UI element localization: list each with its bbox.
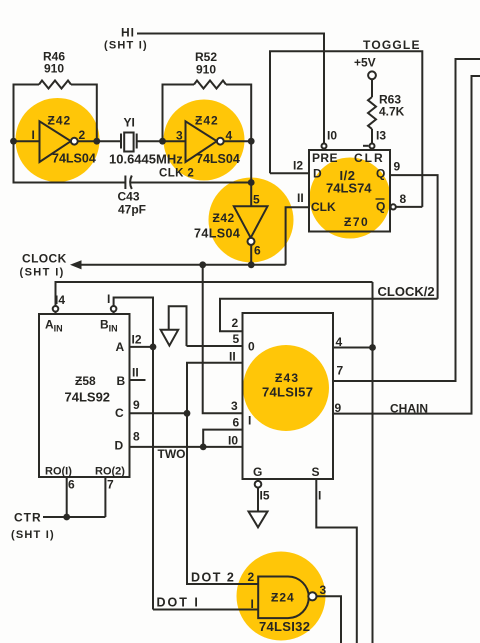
- svg-text:D: D: [313, 167, 322, 181]
- inverter Z42b triangle: [186, 121, 217, 162]
- +5V terminal circle: [368, 71, 376, 79]
- Z58 pin 1 bubble: [111, 306, 117, 312]
- svg-text:9: 9: [133, 398, 140, 412]
- wire C output pin 9 of Z58: [130, 412, 188, 414]
- resistor R52 zigzag: [194, 81, 226, 89]
- svg-text:Ƶ58: Ƶ58: [75, 374, 96, 388]
- svg-text:I0: I0: [228, 434, 238, 448]
- NAND Z24 output bubble: [308, 592, 316, 600]
- junction CTR node: [63, 514, 70, 521]
- wire DOT 1 into Z24 pin 1: [153, 609, 258, 611]
- svg-text:YI: YI: [124, 116, 135, 130]
- svg-text:Ƶ70: Ƶ70: [344, 215, 369, 229]
- wire HI net horizontal and drop to PRE pin 10: [137, 34, 324, 151]
- Z70 CLR pin 13 bubble: [370, 144, 375, 149]
- svg-text:2: 2: [79, 128, 86, 142]
- svg-text:3: 3: [320, 583, 327, 597]
- off-page hollow arrow under Z43 G pin: [249, 512, 268, 528]
- wire Z43 pin 6 stub from D output node: [203, 430, 242, 447]
- svg-text:Q: Q: [376, 167, 385, 181]
- wire CLOCK/2 rail to Z43 pin 2: [220, 299, 438, 332]
- svg-text:2: 2: [248, 570, 255, 584]
- Z70 PRE pin 10 bubble: [322, 144, 327, 149]
- junction inverter Z42a input node: [10, 138, 17, 145]
- wire input of inverter Z42a: [14, 140, 40, 142]
- wire Z43 pin 4 output: [333, 347, 373, 349]
- resistor R46 zigzag: [39, 81, 71, 89]
- svg-text:I0: I0: [327, 129, 337, 143]
- IC box Z43 74LS157 mux: [243, 313, 334, 479]
- svg-text:4.7K: 4.7K: [379, 105, 405, 119]
- svg-text:TWO: TWO: [158, 447, 186, 461]
- svg-text:I: I: [32, 128, 35, 142]
- svg-text:74LSI57: 74LSI57: [262, 385, 313, 400]
- svg-text:I: I: [318, 489, 321, 503]
- highlight circle over flip-flop Z70: [310, 158, 391, 239]
- svg-text:Ƶ42: Ƶ42: [48, 114, 72, 128]
- wire CLOCK rail: [80, 264, 286, 266]
- wire Qbar pin 8 of Z70: [393, 206, 422, 208]
- svg-text:CLK: CLK: [311, 200, 336, 214]
- svg-text:B: B: [117, 374, 126, 388]
- svg-text:CLK 2: CLK 2: [159, 168, 194, 180]
- svg-text:47pF: 47pF: [118, 203, 146, 217]
- svg-text:I2: I2: [132, 333, 142, 347]
- svg-text:PRE: PRE: [312, 151, 338, 165]
- svg-text:C: C: [115, 406, 124, 420]
- svg-text:II: II: [297, 191, 304, 205]
- junction inverter Z42b output node: [248, 138, 255, 145]
- svg-text:74LS04: 74LS04: [52, 152, 96, 166]
- wire CLK pin 11 of Z70 to CLOCK rail: [286, 207, 309, 265]
- wire output of inverter Z42a to crystal: [74, 140, 120, 142]
- wire RO(2) pin 7 of Z58: [104, 477, 106, 517]
- highlight circle over inverter Z42c: [209, 178, 294, 263]
- svg-text:RO(2): RO(2): [95, 466, 125, 478]
- wire C43 right segment to inverter Z42c column: [131, 182, 251, 184]
- svg-text:6: 6: [254, 244, 261, 258]
- svg-text:910: 910: [44, 62, 64, 76]
- svg-text:Ƶ42: Ƶ42: [213, 211, 235, 225]
- wire Z43 pin 5 stub: [187, 345, 243, 347]
- svg-text:910: 910: [196, 63, 216, 77]
- wire RO(1) pin 6 of Z58: [66, 477, 68, 517]
- junction C output node of Z58: [184, 410, 191, 417]
- wire output of inverter Z42b: [220, 140, 251, 142]
- svg-text:(SHT I): (SHT I): [11, 529, 55, 541]
- wire DOT 2 column down to Z24 pin 2: [187, 413, 258, 584]
- svg-text:Ƶ43: Ƶ43: [275, 371, 299, 385]
- inverter Z42b output bubble: [217, 138, 224, 145]
- svg-text:CLR: CLR: [354, 151, 385, 165]
- highlight circle over mux Z43: [243, 345, 329, 431]
- wire CHAIN net Z43 pin 9 to right edge: [333, 76, 480, 414]
- capacitor C43 left plate: [124, 176, 126, 190]
- svg-text:4: 4: [226, 129, 233, 143]
- svg-text:4: 4: [336, 335, 343, 349]
- wire Z58 pin 1 stub into box: [113, 306, 115, 314]
- svg-text:AIN: AIN: [45, 318, 63, 334]
- wire D pin 12 of Z70: [270, 172, 309, 174]
- wire R63 to CLR pin 13: [371, 129, 373, 150]
- svg-text:8: 8: [400, 192, 407, 206]
- svg-text:DOT I: DOT I: [157, 596, 200, 610]
- highlight circle over inverter Z42b: [164, 100, 245, 181]
- wire BIN link from pin 1 bubble to A output column: [114, 298, 153, 610]
- inverter Z42c triangle pointing down: [234, 206, 268, 238]
- NAND Z24 body: [258, 577, 309, 619]
- svg-text:II: II: [132, 366, 139, 380]
- overbar of Qbar label: [376, 198, 385, 200]
- svg-text:G: G: [253, 465, 262, 479]
- wire Z43 G pin 15 down to arrow: [257, 479, 259, 512]
- svg-text:10.6445MHz: 10.6445MHz: [109, 152, 183, 167]
- svg-text:3: 3: [176, 129, 183, 143]
- junction CLOCK rail at Z43 pin3 column: [199, 261, 206, 268]
- wire Z43 S pin 1 down and right to bottom edge: [316, 479, 357, 643]
- svg-text:CLOCK/2: CLOCK/2: [378, 284, 435, 299]
- crystal Y1 plates: [121, 134, 137, 149]
- svg-text:C43: C43: [118, 190, 140, 204]
- svg-text:6: 6: [68, 478, 75, 492]
- wire Z58 pin 14 stub into box: [55, 306, 57, 314]
- inverter Z42a output bubble: [71, 138, 78, 145]
- wire A output pin 12 of Z58: [130, 346, 154, 348]
- svg-text:74LS74: 74LS74: [326, 181, 372, 196]
- svg-text:DOT 2: DOT 2: [191, 571, 235, 585]
- wire inverter Z42b output down through C43 node to Z42c input: [250, 141, 252, 206]
- inverter Z42c output bubble: [248, 238, 255, 245]
- svg-text:3: 3: [231, 399, 238, 413]
- svg-text:BIN: BIN: [100, 318, 118, 334]
- svg-text:+5V: +5V: [354, 56, 376, 70]
- svg-text:9: 9: [335, 401, 342, 415]
- wire Z43 pin 7 output to right edge: [333, 59, 480, 381]
- Z70 Qbar pin 8 bubble: [391, 204, 396, 209]
- svg-text:I2: I2: [293, 159, 303, 173]
- IC box Z70 74LS74 flip-flop: [309, 150, 390, 232]
- svg-text:Ƶ24: Ƶ24: [271, 591, 295, 605]
- wire feedback loop 1 left leg: [14, 85, 40, 142]
- svg-text:I: I: [107, 292, 110, 306]
- svg-text:8: 8: [133, 430, 140, 444]
- IC box Z58 74LS92 counter: [39, 314, 130, 477]
- wire off-page arrow link to Z43 pin 5: [169, 306, 187, 346]
- highlight circle over NAND Z24: [237, 552, 326, 641]
- wire Z24 output pin 3 down to bottom edge: [316, 596, 341, 643]
- svg-text:9: 9: [394, 160, 401, 174]
- junction A output node of Z58: [150, 344, 157, 351]
- svg-text:CTR: CTR: [14, 511, 42, 525]
- svg-text:A: A: [116, 340, 125, 354]
- svg-text:74LS04: 74LS04: [196, 152, 240, 166]
- Z58 pin 14 bubble: [53, 306, 59, 312]
- wire Q pin 9 of Z70 down to CLOCK/2 rail: [389, 175, 438, 299]
- wire Z43 pin 4 output column down to bottom edge: [372, 282, 374, 643]
- svg-text:Q: Q: [376, 200, 385, 214]
- junction D output node of Z58: [200, 444, 207, 451]
- Z43 G pin 15 bubble: [255, 481, 262, 488]
- wire +5V stub above R63: [371, 79, 373, 97]
- wire feedback loop 2 right leg: [226, 85, 251, 142]
- wire D output pin 8 of Z58 to Z43 pin 10: [130, 446, 243, 448]
- wire feedback loop 1 right leg: [71, 85, 97, 142]
- highlight circle over inverter Z42a: [16, 98, 100, 182]
- svg-text:TOGGLE: TOGGLE: [363, 38, 421, 52]
- wire CLOCK rail down to Z43 pin 3: [203, 265, 243, 414]
- svg-text:I3: I3: [376, 129, 386, 143]
- svg-text:5: 5: [253, 193, 260, 207]
- HIGHLIGHTS: [16, 98, 391, 641]
- svg-text:7: 7: [337, 364, 344, 378]
- off-page hollow arrow near Z58: [161, 330, 179, 346]
- svg-text:I4: I4: [55, 293, 65, 307]
- tick mark left of pin 13 bubble: [363, 145, 369, 147]
- svg-text:5: 5: [233, 332, 240, 346]
- wire Z43 pin 11 stub down to C output node: [187, 363, 243, 414]
- capacitor C43 right plate: [130, 176, 132, 190]
- wire crystal Y1 to inverter Z42b input: [137, 140, 186, 142]
- resistor R63 zigzag: [368, 97, 376, 129]
- wire B output pin 11 stub of Z58: [130, 379, 146, 381]
- svg-text:(SHT I): (SHT I): [104, 40, 148, 52]
- wire feedback loop 2 left leg: [163, 85, 195, 142]
- wire CTR net: [43, 516, 105, 518]
- svg-text:Ƶ42: Ƶ42: [195, 114, 219, 128]
- svg-text:II: II: [229, 350, 236, 364]
- junction Z43 pin 4 output node: [369, 344, 376, 351]
- svg-text:74LSI32: 74LSI32: [259, 619, 310, 634]
- junction CLOCK rail at inverter Z42c output: [248, 261, 255, 268]
- svg-text:I5: I5: [260, 489, 270, 503]
- svg-text:I: I: [251, 597, 254, 611]
- svg-text:74LS04: 74LS04: [194, 227, 240, 241]
- wire C43 branch left segment: [14, 141, 126, 182]
- svg-text:CLOCK: CLOCK: [22, 252, 67, 266]
- inverter U=Z42a triangle: [40, 121, 71, 162]
- svg-text:S: S: [312, 465, 320, 479]
- svg-text:2: 2: [232, 316, 239, 330]
- wire AIN rail from Z58 pin 14 to Z43 pin 4 column: [56, 282, 373, 306]
- svg-text:I: I: [248, 414, 251, 428]
- svg-text:7: 7: [107, 478, 114, 492]
- CLOCK left arrowhead: [70, 260, 82, 269]
- svg-text:0: 0: [248, 340, 255, 354]
- svg-text:HI: HI: [121, 26, 135, 40]
- wire inverter Z42c output down to CLOCK rail: [250, 241, 252, 264]
- junction inverter Z42b input node: [159, 138, 166, 145]
- svg-text:(SHT I): (SHT I): [20, 267, 65, 279]
- svg-text:6: 6: [233, 416, 240, 430]
- svg-text:74LS92: 74LS92: [65, 390, 111, 405]
- crystal Y1 body: [124, 133, 133, 152]
- svg-text:RO(I): RO(I): [45, 466, 72, 478]
- svg-text:CHAIN: CHAIN: [390, 402, 428, 416]
- junction inverter Z42a output node: [93, 138, 100, 145]
- wire TOGGLE bracket: D pin12 up, across, down to Qbar pin8: [270, 51, 422, 207]
- svg-text:D: D: [115, 439, 124, 453]
- junction C43 node: [248, 179, 255, 186]
